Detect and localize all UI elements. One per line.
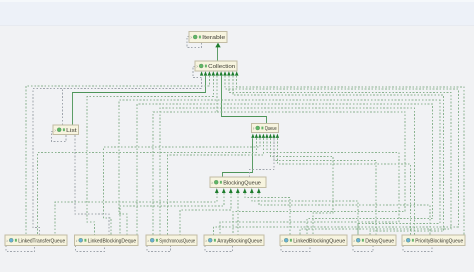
class LinkedTransferQueue — [5, 235, 67, 246]
self-loop Collection — [193, 67, 201, 78]
interface Iterable — [189, 32, 227, 43]
class SynchronousQueue — [146, 235, 197, 246]
class PriorityBlockingQueue — [402, 235, 465, 246]
wire BlockingQueue dependency — [250, 139, 275, 177]
arrowhead into Queue 1 — [251, 134, 254, 138]
wire PriorityBlockingQueue to Collection — [237, 76, 464, 235]
arrowhead into Collection 5 — [219, 71, 223, 75]
svg-text:LinkedTransferQueue: LinkedTransferQueue — [18, 238, 65, 244]
wire SynchronousQueue to BlockingQueue — [180, 193, 231, 235]
wire PriorityBlockingQueue to Queue — [277, 138, 410, 235]
arrowhead into BlockingQueue 1 — [215, 188, 219, 193]
arrowhead into Queue 5 — [265, 134, 268, 138]
svg-text:Queue: Queue — [265, 126, 277, 132]
class LinkedBlockingQueue — [280, 235, 347, 246]
arrowhead into BlockingQueue 7 — [257, 188, 261, 193]
wire Queue extends Collection — [222, 76, 267, 124]
wire LinkedTransferQueue to Collection — [26, 76, 209, 235]
wire LinkedTransferQueue to Queue — [38, 138, 257, 235]
wire LinkedBlockingQueue to Queue — [270, 138, 333, 235]
wire routing channel A — [119, 100, 440, 235]
svg-text:ArrayBlockingQueue: ArrayBlockingQueue — [217, 238, 262, 244]
wire ArrayBlockingQueue to Queue — [220, 138, 399, 235]
svg-text:Collection: Collection — [208, 64, 235, 70]
interface BlockingQueue — [210, 177, 266, 188]
self-loop LinkedBlockingDeque — [76, 246, 105, 252]
wire dependency behind List to LinkedBlockingDeque — [75, 125, 109, 235]
wire LinkedBlockingDeque to Queue — [104, 138, 260, 235]
class ArrayBlockingQueue — [204, 235, 264, 246]
arrowhead into Collection 1 — [204, 71, 208, 75]
wire LinkedBlockingQueue to Collection — [229, 76, 451, 235]
arrowhead into Collection 6 — [223, 71, 227, 75]
wire LinkedBlockingDeque to Collection — [87, 76, 213, 235]
wire PriorityBlockingQueue to BlockingQueue — [259, 193, 430, 235]
arrowhead into BlockingQueue 2 — [222, 188, 226, 193]
top toolbar band — [0, 0, 474, 25]
wire BlockingQueue extends Queue — [223, 138, 253, 177]
svg-text:LinkedBlockingDeque: LinkedBlockingDeque — [88, 238, 137, 244]
self-loop DelayQueue — [353, 246, 373, 252]
arrowhead into Collection 4 — [215, 71, 219, 75]
svg-text:List: List — [66, 128, 77, 134]
wire routing channel B — [137, 104, 432, 235]
wire Collection extends Iterable — [217, 47, 219, 62]
arrowhead into Queue 6 — [269, 134, 272, 138]
wire SynchronousQueue to Collection — [153, 76, 217, 235]
arrowhead into Collection 7 — [227, 71, 231, 75]
class DelayQueue — [352, 235, 396, 246]
interface List — [53, 125, 79, 135]
wire LinkedBlockingQueue to BlockingQueue — [245, 193, 290, 235]
self-loop PriorityBlockingQueue — [403, 246, 432, 252]
self-loop LinkedTransferQueue — [6, 246, 35, 252]
interface Queue — [252, 124, 279, 133]
self-loop ArrayBlockingQueue — [205, 246, 233, 252]
wire LinkedTransferQueue to BlockingQueue — [55, 193, 217, 235]
wire SynchronousQueue to Queue — [168, 138, 264, 235]
svg-text:BlockingQueue: BlockingQueue — [223, 180, 261, 186]
arrowhead into Queue 4 — [262, 134, 265, 138]
wire LinkedBlockingDeque to BlockingQueue — [120, 193, 224, 235]
svg-text:DelayQueue: DelayQueue — [365, 238, 394, 244]
wire DelayQueue to Collection — [233, 76, 444, 235]
wire DelayQueue to BlockingQueue — [252, 193, 358, 235]
arrowhead into Iterable — [215, 43, 220, 48]
self-loop SynchronousQueue — [147, 246, 170, 252]
arrowhead Collection self-loop — [200, 71, 203, 75]
wire DelayQueue to Queue — [274, 138, 376, 235]
svg-text:SynchronousQueue: SynchronousQueue — [159, 238, 195, 244]
arrowhead into Queue 3 — [258, 134, 261, 138]
wire routing channel C — [160, 108, 414, 235]
class LinkedBlockingDeque — [75, 235, 139, 246]
svg-text:PriorityBlockingQueue: PriorityBlockingQueue — [415, 238, 463, 244]
wire List dependency — [63, 78, 202, 125]
self-loop Iterable — [187, 37, 202, 48]
self-loop List — [52, 132, 67, 142]
wire ArrayBlockingQueue to Collection — [214, 76, 459, 235]
interface Collection — [195, 61, 237, 71]
arrowhead into BlockingQueue 6 — [250, 188, 254, 193]
svg-text:LinkedBlockingQueue: LinkedBlockingQueue — [293, 238, 345, 244]
arrowhead into Collection 8 — [231, 71, 235, 75]
self-loop LinkedBlockingQueue — [281, 246, 310, 252]
arrowhead into BlockingQueue 4 — [236, 188, 240, 193]
wire routing channel D — [217, 112, 405, 235]
wire LinkedTransferQueue dependency — [33, 89, 63, 235]
arrowhead into BlockingQueue 5 — [243, 188, 247, 193]
arrowhead into Collection 2 — [208, 71, 212, 75]
wire ArrayBlockingQueue to BlockingQueue — [237, 193, 239, 235]
arrowhead into BlockingQueue 3 — [229, 188, 233, 193]
wire List extends Collection — [73, 76, 206, 125]
svg-text:Iterable: Iterable — [202, 35, 225, 41]
arrowhead into Queue 2 — [255, 134, 258, 138]
arrowhead into Queue 8 — [276, 134, 279, 138]
arrowhead into Queue 7 — [272, 134, 275, 138]
arrowhead into Collection 3 — [212, 71, 216, 75]
arrowhead into Collection 9 — [235, 71, 239, 75]
